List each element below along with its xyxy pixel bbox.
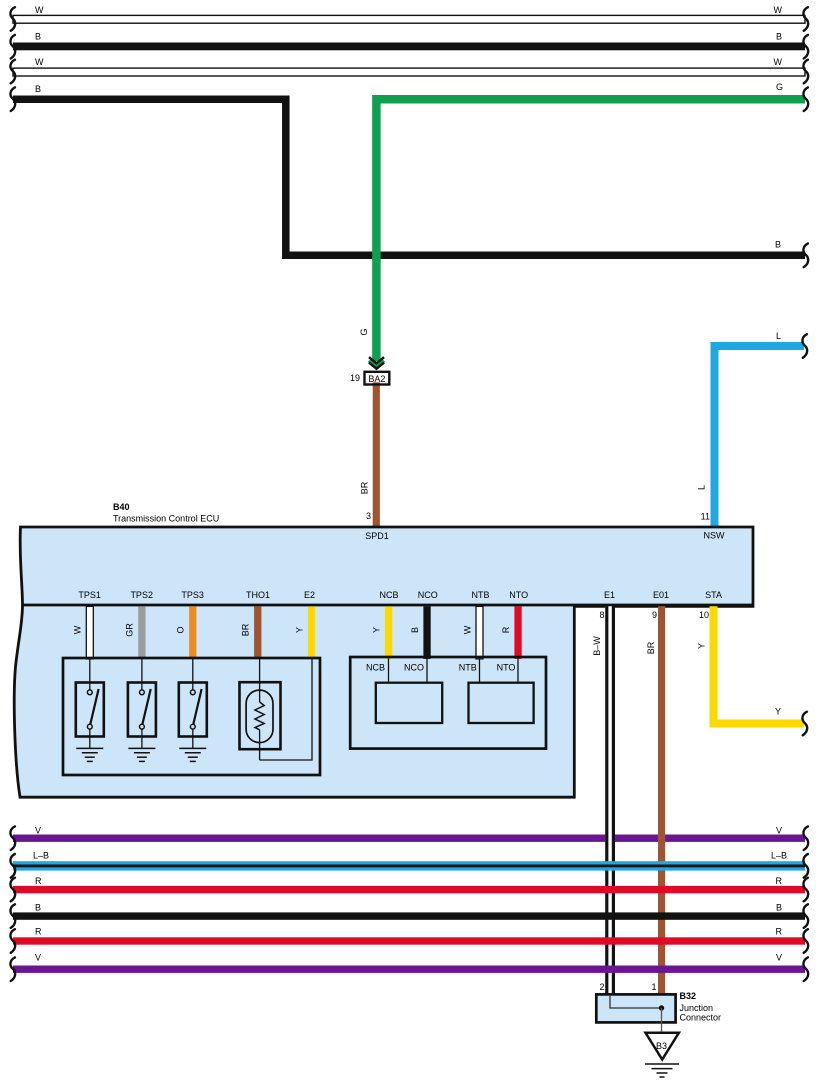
wire Y NCB — [385, 606, 392, 659]
wire W row1 (white, two border lines) — [13, 15, 805, 23]
svg-text:Transmission Control ECU: Transmission Control ECU — [113, 514, 219, 524]
squiggle row4 right (G) — [803, 87, 808, 111]
svg-text:NSW: NSW — [704, 531, 726, 541]
wire V row bottom-6 — [13, 966, 805, 973]
squiggle row2 right — [803, 35, 808, 59]
wire B row4: left horizontal, vertical drop at x286, then row5 horizontal to right — [13, 99, 805, 255]
squiggle B right — [803, 904, 808, 928]
svg-text:B: B — [776, 32, 782, 42]
svg-text:19: 19 — [350, 373, 360, 383]
switch TPS1 — [76, 659, 104, 748]
svg-text:10: 10 — [699, 610, 709, 620]
wire GR TPS2 — [138, 606, 145, 659]
inner box: speed sensors NCB/NCO/NTB/NTO — [350, 657, 546, 749]
svg-text:Connector: Connector — [680, 1013, 722, 1023]
wire B row2 — [13, 43, 805, 51]
svg-text:G: G — [776, 82, 783, 92]
svg-text:NTO: NTO — [497, 663, 516, 673]
svg-text:B: B — [776, 903, 782, 913]
svg-text:THO1: THO1 — [246, 590, 270, 600]
svg-text:V: V — [776, 826, 782, 836]
svg-text:E1: E1 — [604, 590, 615, 600]
squiggle V right 2 — [803, 957, 808, 981]
svg-text:TPS1: TPS1 — [78, 590, 101, 600]
squiggle row5 right (B) — [803, 244, 808, 268]
sensor box NT — [469, 683, 534, 723]
ground TPS3 — [179, 748, 206, 761]
svg-text:W: W — [774, 5, 783, 15]
inner box: TPS switches + THO1 — [63, 658, 320, 775]
svg-text:E2: E2 — [304, 590, 315, 600]
squiggle R right — [803, 878, 808, 902]
squiggle row1 left — [10, 7, 15, 31]
wire R NTO — [514, 606, 521, 659]
svg-text:9: 9 — [652, 610, 657, 620]
ground symbol — [645, 1064, 679, 1077]
squiggle row2 left — [10, 35, 15, 59]
ECU pin row line — [22, 604, 754, 607]
squiggle V left — [10, 826, 15, 850]
wire W TPS1 (white) — [86, 606, 93, 659]
svg-text:NTB: NTB — [459, 663, 477, 673]
svg-text:E01: E01 — [653, 590, 669, 600]
svg-text:R: R — [501, 626, 511, 633]
svg-text:Y: Y — [697, 643, 707, 649]
wire BR E01 vertical — [658, 606, 665, 996]
ground triangle B3 — [646, 1033, 679, 1060]
svg-text:BR: BR — [360, 481, 370, 494]
svg-text:BA2: BA2 — [368, 374, 385, 384]
squiggle R left — [10, 878, 15, 902]
svg-text:B: B — [35, 32, 41, 42]
wire G green: horizontal row4 right portion + vertical down to BA2 arrow — [376, 99, 805, 361]
svg-text:B: B — [35, 84, 41, 94]
wire W NTB (white) — [476, 606, 483, 659]
ECU B40 body (L-shape with wavy left edge) — [14, 527, 753, 797]
squiggle R left 2 — [10, 929, 15, 953]
svg-text:GR: GR — [125, 623, 135, 637]
junction stem to ground triangle — [661, 1008, 663, 1033]
svg-text:2: 2 — [599, 982, 604, 992]
svg-text:O: O — [176, 626, 186, 633]
connector BA2 box — [365, 372, 390, 385]
wire W row3 (white) — [13, 68, 805, 76]
squiggle V left 2 — [10, 957, 15, 981]
wire V row bottom-1 (drawn under verticals) — [13, 835, 805, 842]
sensor droppers — [389, 659, 519, 683]
svg-text:B: B — [35, 903, 41, 913]
svg-text:8: 8 — [599, 610, 604, 620]
svg-text:W: W — [73, 625, 83, 634]
svg-text:11: 11 — [701, 512, 710, 522]
squiggle L-B left — [10, 854, 15, 878]
svg-text:V: V — [776, 953, 782, 963]
switch TPS2 — [128, 659, 156, 748]
svg-text:NTB: NTB — [472, 590, 490, 600]
svg-text:W: W — [35, 5, 44, 15]
svg-text:V: V — [35, 953, 41, 963]
squiggle Y right — [802, 712, 807, 736]
wire BR THO1 — [254, 606, 261, 659]
squiggle L right — [802, 334, 807, 358]
double arrowhead into BA2 — [370, 360, 384, 366]
svg-text:STA: STA — [705, 590, 722, 600]
svg-text:W: W — [774, 57, 783, 67]
svg-text:BR: BR — [241, 623, 251, 636]
wire O TPS3 — [189, 606, 196, 659]
svg-text:V: V — [35, 826, 41, 836]
wire B-W E1 vertical (black/white/black) — [605, 606, 615, 995]
wire B row bottom-4 — [13, 912, 805, 919]
svg-text:NTO: NTO — [509, 590, 528, 600]
svg-text:B40: B40 — [113, 502, 130, 512]
wire BR brown from BA2 to ECU pin SPD1 — [373, 382, 380, 528]
svg-text:R: R — [35, 876, 42, 886]
svg-text:TPS3: TPS3 — [181, 590, 204, 600]
wire L light blue: from right edge down to ECU pin NSW — [715, 346, 805, 527]
wire Y E2 — [308, 606, 315, 659]
svg-text:R: R — [776, 927, 783, 937]
svg-text:L: L — [697, 485, 707, 490]
squiggle row1 right — [803, 7, 808, 31]
junction connector B32 box — [596, 994, 675, 1022]
junction node dot — [659, 1005, 664, 1010]
svg-text:NCO: NCO — [418, 590, 438, 600]
svg-text:Y: Y — [295, 627, 305, 633]
svg-text:B: B — [775, 240, 781, 250]
svg-text:B–W: B–W — [592, 636, 602, 656]
svg-text:R: R — [776, 876, 783, 886]
wire R row bottom-5 — [13, 937, 805, 944]
svg-text:Y: Y — [372, 627, 382, 633]
switch TPS3 — [179, 659, 207, 748]
squiggle R right 2 — [803, 929, 808, 953]
svg-text:Junction: Junction — [680, 1003, 714, 1013]
svg-text:Y: Y — [775, 707, 781, 717]
squiggle row3 right — [803, 60, 808, 84]
svg-text:TPS2: TPS2 — [130, 590, 153, 600]
svg-text:3: 3 — [366, 511, 371, 521]
svg-text:G: G — [359, 328, 369, 335]
svg-text:SPD1: SPD1 — [365, 531, 389, 541]
squiggle B left — [10, 904, 15, 928]
svg-text:1: 1 — [651, 982, 656, 992]
svg-text:NCB: NCB — [379, 590, 398, 600]
svg-text:B32: B32 — [680, 991, 697, 1001]
ground TPS1 — [76, 748, 103, 761]
svg-text:B: B — [410, 627, 420, 633]
squiggle row4 left — [10, 87, 15, 111]
wire E2 internal link — [260, 659, 312, 760]
wire B NCO — [423, 606, 430, 659]
wire STA yellow: down then right to edge — [714, 606, 805, 723]
svg-text:BR: BR — [646, 641, 656, 654]
ground TPS2 — [128, 748, 155, 761]
svg-text:NCO: NCO — [404, 663, 424, 673]
squiggle L-B right — [803, 854, 808, 878]
squiggle row3 left — [10, 60, 15, 84]
squiggle V right — [803, 826, 808, 850]
svg-text:W: W — [35, 57, 44, 67]
thermistor THO1 — [240, 659, 281, 760]
wire R row bottom-3 — [13, 886, 805, 893]
svg-text:L: L — [776, 331, 781, 341]
sensor box NC — [376, 683, 442, 723]
svg-text:L–B: L–B — [771, 851, 787, 861]
svg-text:R: R — [35, 927, 42, 937]
svg-text:B3: B3 — [656, 1041, 667, 1051]
svg-text:NCB: NCB — [366, 663, 385, 673]
wire L-B row bottom-2 (blue with black core, drawn over verticals) — [13, 861, 805, 870]
junction internal bus — [610, 996, 662, 1008]
svg-text:L–B: L–B — [33, 851, 49, 861]
svg-text:W: W — [463, 625, 473, 634]
